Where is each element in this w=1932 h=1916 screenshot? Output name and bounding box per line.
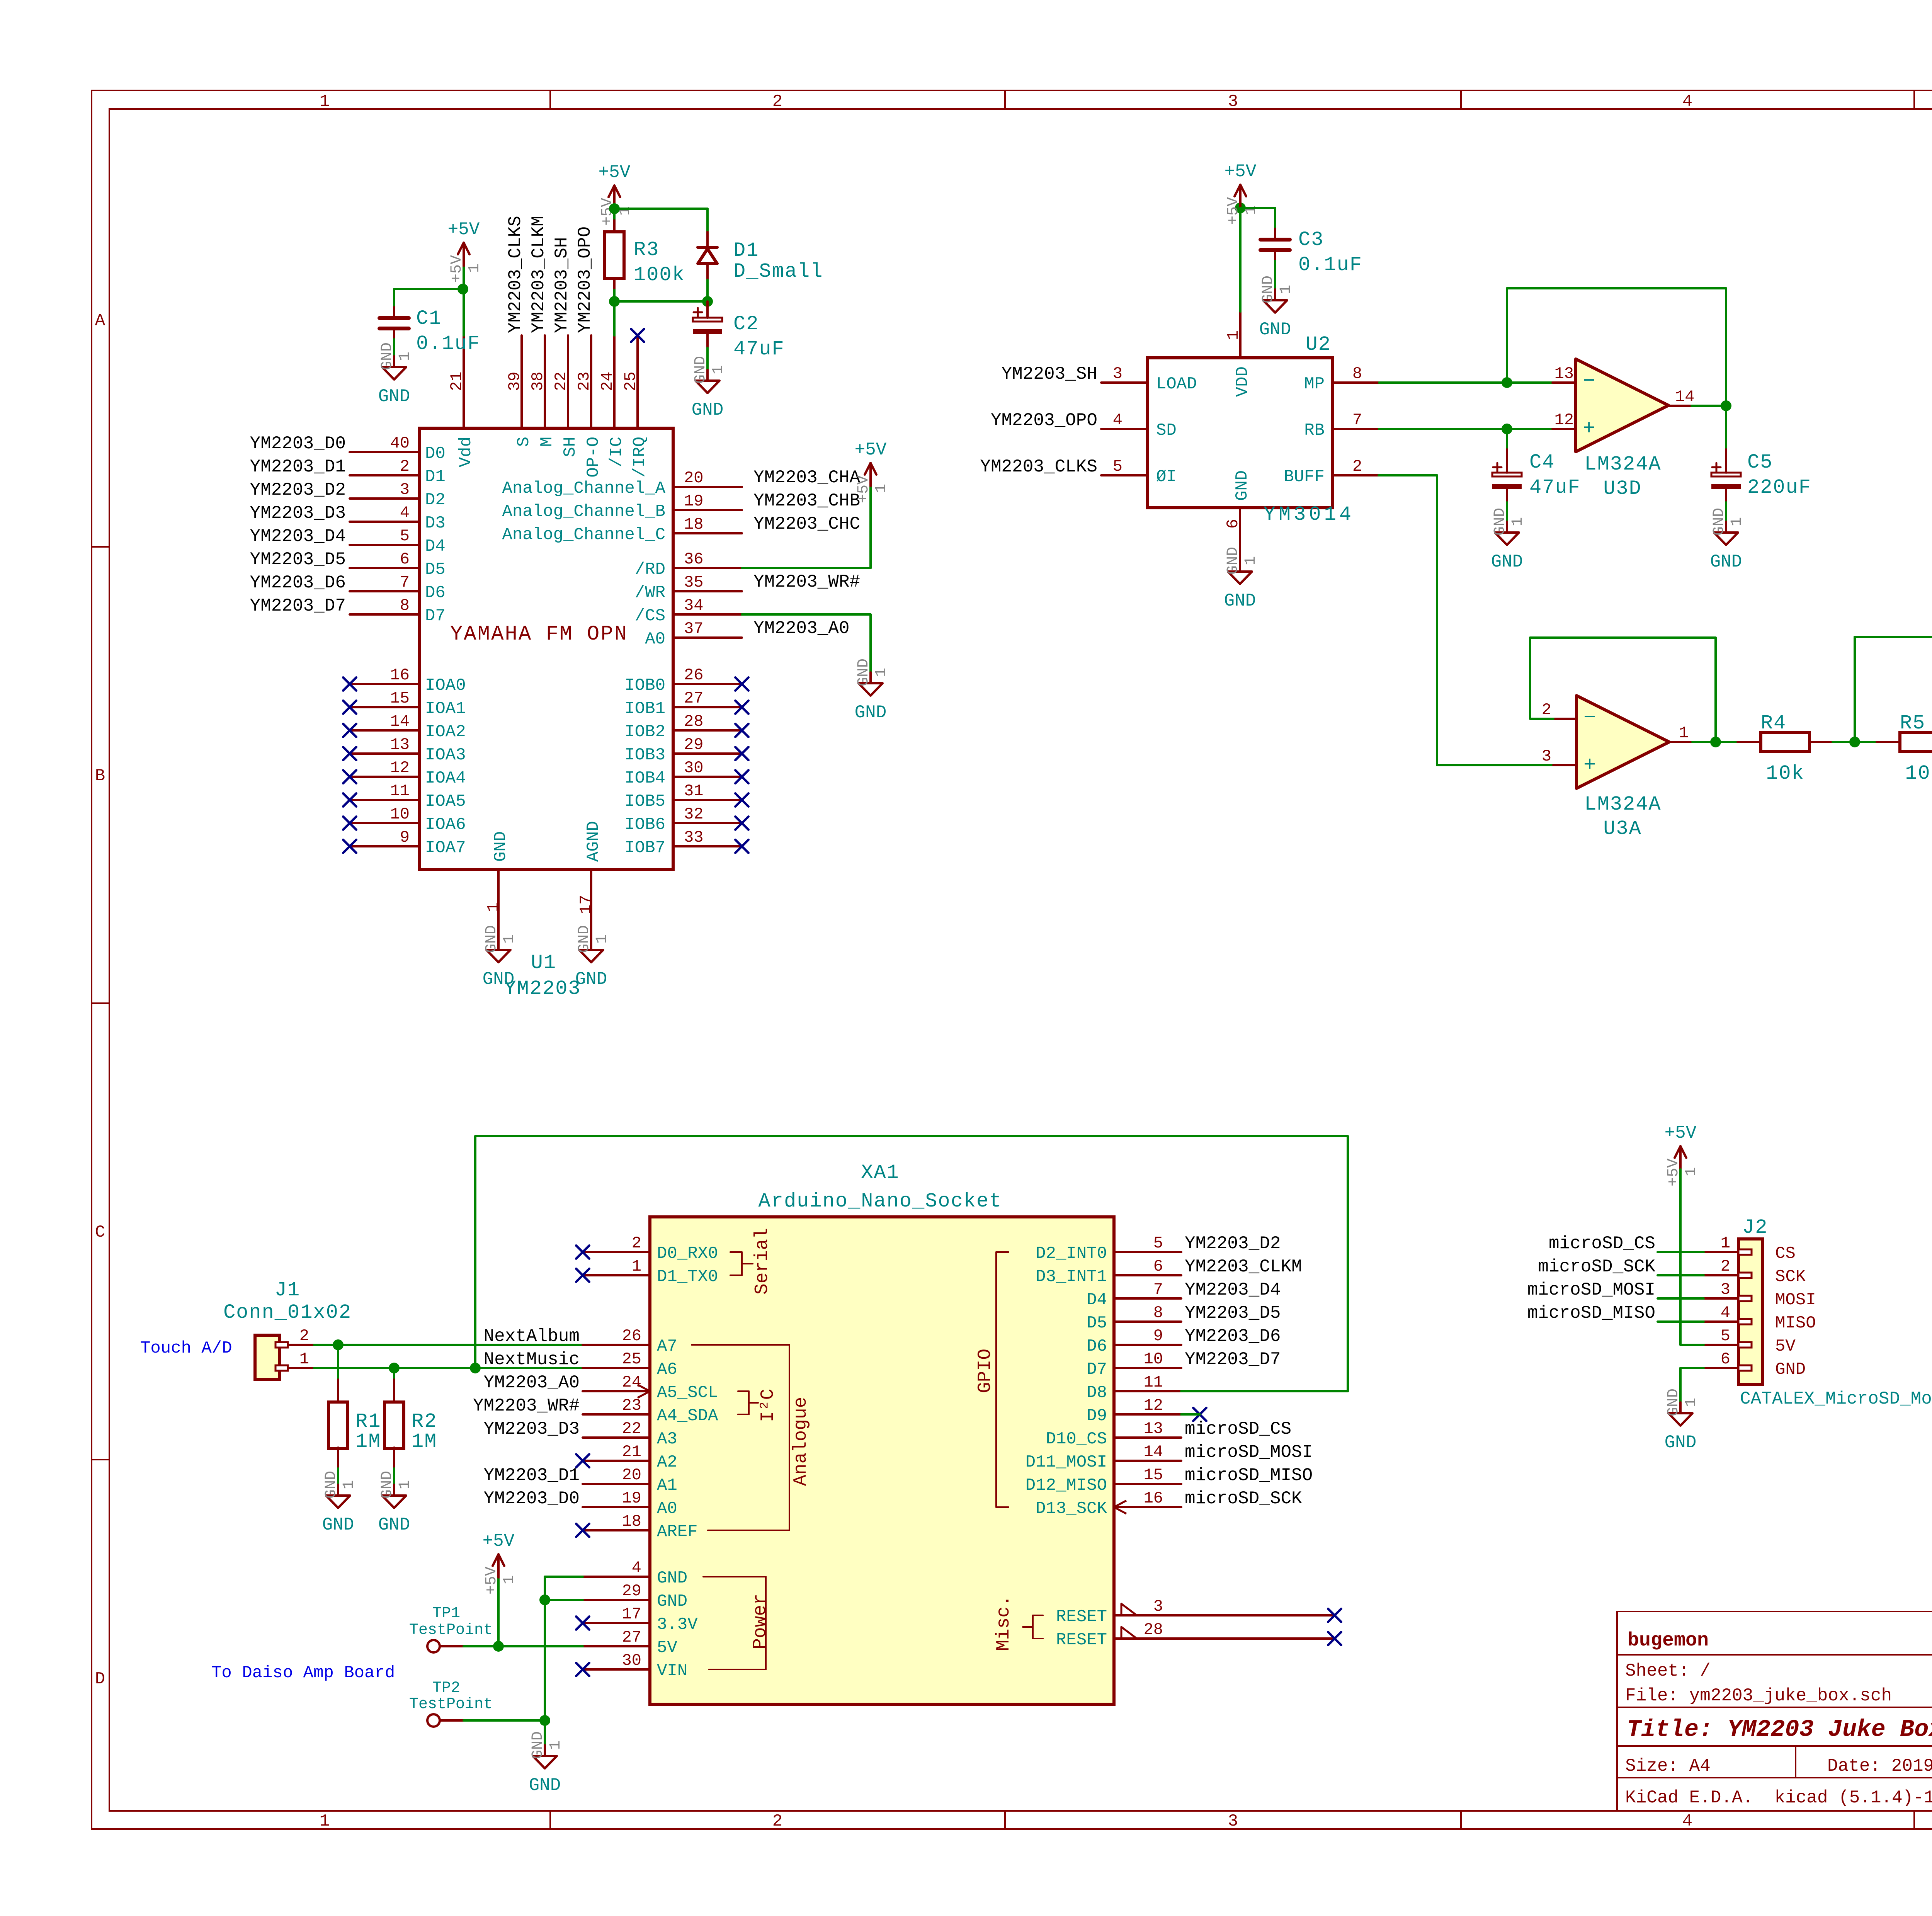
svg-text:4: 4: [1721, 1303, 1730, 1322]
net label microSD_SCK at J2: [1538, 1257, 1655, 1277]
net label YM2203_D1: [250, 457, 346, 477]
svg-text:A4_SDA: A4_SDA: [657, 1406, 718, 1426]
svg-text:RB: RB: [1304, 421, 1325, 440]
U1 pin 36 /RD: [635, 550, 742, 579]
svg-text:YM2203_CLKS: YM2203_CLKS: [505, 216, 526, 333]
svg-text:22: 22: [552, 372, 570, 391]
svg-text:2: 2: [1542, 701, 1551, 719]
net label microSD_MOSI at J2: [1527, 1280, 1655, 1300]
wire C3 bottom: [1274, 250, 1276, 289]
wire microSD_MOSI to J2: [1658, 1297, 1704, 1300]
net label microSD_MISO at J2: [1527, 1303, 1655, 1323]
XA1 pin 26 A7: [583, 1327, 677, 1356]
svg-text:D8: D8: [1087, 1383, 1107, 1402]
svg-text:D0: D0: [425, 444, 446, 463]
svg-text:3: 3: [400, 480, 410, 499]
svg-text:16: 16: [1144, 1489, 1163, 1508]
svg-text:D11_MOSI: D11_MOSI: [1026, 1453, 1107, 1472]
wire J2 GND pin: [1680, 1368, 1704, 1402]
svg-text:LM324A: LM324A: [1584, 793, 1661, 816]
svg-text:4: 4: [632, 1559, 641, 1577]
junction at 5V tap: [493, 1641, 504, 1652]
svg-text:Analog_Channel_C: Analog_Channel_C: [502, 525, 665, 545]
svg-text:19: 19: [684, 492, 703, 510]
svg-text:D13_SCK: D13_SCK: [1036, 1499, 1107, 1518]
svg-text:28: 28: [684, 712, 703, 731]
net label YM2203_D2 at XA1: [1185, 1234, 1281, 1254]
svg-text:YM2203_D0: YM2203_D0: [484, 1489, 580, 1509]
svg-text:IOB4: IOB4: [624, 769, 665, 788]
svg-text:27: 27: [622, 1628, 641, 1647]
net label microSD_SCK at XA1: [1185, 1489, 1302, 1509]
U2 pin 1 VDD: [1224, 311, 1252, 397]
R1 value 1M: [355, 1430, 381, 1453]
svg-text:3: 3: [1228, 92, 1238, 111]
svg-text:AGND: AGND: [584, 821, 603, 862]
svg-text:A: A: [95, 311, 105, 330]
svg-text:+5V: +5V: [855, 440, 887, 460]
net label YM2203_D4: [250, 526, 346, 546]
svg-text:A7: A7: [657, 1337, 677, 1356]
svg-text:IOB3: IOB3: [624, 745, 665, 765]
wire +5V junction to C1: [394, 288, 463, 290]
svg-text:CS: CS: [1775, 1244, 1796, 1263]
XA1 Power bracket: [703, 1577, 771, 1669]
wire RB junction down to C4: [1506, 429, 1508, 473]
svg-text:/IC: /IC: [607, 437, 626, 467]
svg-text:VIN: VIN: [657, 1661, 687, 1681]
svg-text:1: 1: [1509, 517, 1527, 526]
XA1 pin 16 D13_SCK: [1036, 1489, 1181, 1518]
svg-text:Serial: Serial: [752, 1228, 773, 1295]
U1 pin 6 D5: [350, 550, 446, 579]
U1 pin 17 AGND: [577, 821, 603, 939]
svg-text:GND: GND: [657, 1592, 687, 1611]
svg-text:A2: A2: [657, 1453, 677, 1472]
U1 pin 7 D6: [350, 573, 446, 602]
svg-text:28: 28: [1144, 1620, 1163, 1639]
svg-text:27: 27: [684, 689, 703, 708]
svg-text:100k: 100k: [634, 264, 685, 286]
R5 value 10k: [1905, 762, 1932, 785]
svg-text:4: 4: [400, 504, 410, 522]
svg-text:1: 1: [320, 92, 330, 111]
U1 pin 39 S: [505, 335, 534, 447]
svg-text:1: 1: [710, 365, 727, 374]
XA1 pin 23 A4_SDA: [583, 1396, 718, 1426]
wire R4 to junction: [1833, 741, 1855, 743]
svg-text:23: 23: [622, 1396, 641, 1415]
svg-text:File: ym2203_juke_box.sch: File: ym2203_juke_box.sch: [1625, 1686, 1892, 1706]
svg-text:Sheet: /: Sheet: /: [1625, 1661, 1711, 1681]
svg-text:IOB2: IOB2: [624, 722, 665, 742]
svg-text:GND: GND: [657, 1569, 687, 1588]
svg-text:TestPoint: TestPoint: [409, 1622, 493, 1639]
svg-text:2: 2: [299, 1327, 309, 1345]
svg-text:3: 3: [1721, 1280, 1730, 1299]
svg-text:microSD_MOSI: microSD_MOSI: [1185, 1442, 1313, 1462]
svg-text:microSD_CS: microSD_CS: [1549, 1234, 1655, 1254]
svg-text:U3A: U3A: [1603, 817, 1642, 840]
svg-text:3: 3: [1153, 1597, 1163, 1616]
svg-text:R4: R4: [1761, 712, 1786, 735]
svg-text:/WR: /WR: [635, 583, 665, 602]
svg-text:YM2203_D5: YM2203_D5: [1185, 1303, 1281, 1323]
U1 pin 18 Analog_Channel_C: [502, 515, 742, 545]
svg-text:RESET: RESET: [1056, 1630, 1107, 1650]
wire junction to /IC pin: [613, 301, 616, 335]
svg-text:AREF: AREF: [657, 1522, 698, 1542]
wire U3A output to R4: [1716, 741, 1738, 743]
net label YM2203_D1 at XA1: [484, 1465, 580, 1485]
svg-text:J1: J1: [275, 1279, 300, 1302]
U1 pin 12 IOA4 with no-connect: [343, 759, 466, 788]
C1 value 0.1uF: [416, 332, 480, 355]
svg-text:7: 7: [1153, 1280, 1163, 1299]
svg-text:YM2203_D1: YM2203_D1: [250, 457, 346, 477]
svg-text:1: 1: [873, 484, 890, 493]
wire D1 bottom to junction: [706, 280, 709, 301]
svg-text:GND: GND: [1492, 508, 1509, 536]
svg-text:15: 15: [390, 689, 410, 708]
svg-text:IOB0: IOB0: [624, 676, 665, 695]
wire stub D9: [1181, 1413, 1200, 1416]
U1 pin 26 IOB0 with no-connect: [624, 666, 748, 695]
U3D value LM324A: [1584, 453, 1661, 476]
wire junction up to C8 row: [1854, 637, 1856, 742]
XA1 pin 5 D2_INT0: [1036, 1234, 1181, 1263]
wire C5 bottom: [1725, 489, 1727, 522]
net label NextMusic at XA1: [484, 1349, 580, 1370]
U3A pin 3 stub: [1542, 747, 1577, 766]
svg-text:YM2203_D2: YM2203_D2: [1185, 1234, 1281, 1254]
svg-text:MISO: MISO: [1775, 1314, 1816, 1333]
net label YM2203_A0 at U1: [753, 618, 849, 638]
svg-text:6: 6: [1224, 519, 1242, 529]
svg-text:D1: D1: [425, 467, 446, 487]
svg-text:12: 12: [390, 759, 410, 777]
net label YM2203_WR# at XA1: [473, 1396, 580, 1416]
svg-text:20: 20: [622, 1466, 641, 1484]
svg-text:21: 21: [622, 1443, 641, 1461]
R4 reference: [1761, 712, 1786, 735]
svg-text:1: 1: [340, 1480, 358, 1489]
net label YM2203_D6: [250, 573, 346, 593]
svg-text:2: 2: [772, 1812, 782, 1831]
svg-text:Arduino_Nano_Socket: Arduino_Nano_Socket: [759, 1190, 1002, 1213]
svg-text:IOA4: IOA4: [425, 769, 466, 788]
svg-text:microSD_MOSI: microSD_MOSI: [1527, 1280, 1655, 1300]
R2 value 1M: [412, 1430, 437, 1453]
XA1 pin 1 D1_TX0: [576, 1257, 718, 1286]
svg-text:18: 18: [622, 1512, 641, 1531]
XA1 pin 10 D7: [1087, 1350, 1181, 1379]
ground symbol at U1 pin 17: [575, 925, 611, 989]
svg-text:26: 26: [684, 666, 703, 684]
svg-text:20: 20: [684, 469, 703, 487]
svg-text:U2: U2: [1306, 333, 1331, 356]
svg-text:GND: GND: [1710, 552, 1742, 572]
svg-text:microSD_CS: microSD_CS: [1185, 1419, 1291, 1439]
svg-text:1: 1: [501, 934, 518, 944]
svg-text:GND: GND: [1491, 552, 1523, 572]
wire U3D output down to C5: [1725, 406, 1727, 473]
wire C4 bottom: [1506, 489, 1508, 522]
TP2 value TestPoint: [409, 1696, 493, 1713]
svg-text:1: 1: [1277, 285, 1295, 294]
junction at U2 +5V: [1235, 202, 1246, 213]
resistor R5: [1877, 732, 1932, 752]
svg-text:GND: GND: [483, 969, 515, 989]
svg-text:C3: C3: [1298, 228, 1324, 251]
wire BUFF to U3A pin 3: [1437, 764, 1553, 766]
junction on RB wire: [1502, 424, 1512, 434]
svg-text:D4: D4: [425, 537, 446, 556]
svg-text:Conn_01x02: Conn_01x02: [223, 1301, 352, 1324]
svg-text:GND: GND: [1665, 1433, 1697, 1453]
J2 pin 6 GND: [1704, 1350, 1806, 1379]
wire NextMusic riser: [474, 1136, 476, 1368]
svg-text:8: 8: [1153, 1303, 1163, 1322]
svg-text:8: 8: [1352, 364, 1362, 383]
XA1 pin 30 VIN: [576, 1651, 687, 1681]
svg-text:SCK: SCK: [1775, 1267, 1806, 1286]
wire U2 VDD to +5V: [1239, 208, 1242, 311]
svg-text:36: 36: [684, 550, 703, 568]
net label YM2203_D3: [250, 503, 346, 523]
resistor R2: [384, 1402, 404, 1448]
svg-text:14: 14: [390, 712, 410, 731]
svg-text:NextAlbum: NextAlbum: [484, 1326, 580, 1346]
svg-text:3.3V: 3.3V: [657, 1615, 698, 1634]
svg-text:4: 4: [1682, 92, 1692, 111]
svg-text:22: 22: [622, 1419, 641, 1438]
svg-text:MP: MP: [1304, 374, 1325, 394]
svg-text:NextMusic: NextMusic: [484, 1349, 580, 1370]
svg-text:IOA3: IOA3: [425, 745, 466, 765]
svg-text:24: 24: [598, 372, 617, 391]
svg-text:35: 35: [684, 573, 703, 592]
svg-text:YM2203_SH: YM2203_SH: [552, 237, 572, 333]
svg-text:D2_INT0: D2_INT0: [1036, 1244, 1107, 1263]
svg-text:GND: GND: [855, 703, 887, 723]
svg-text:microSD_MISO: microSD_MISO: [1527, 1303, 1655, 1323]
svg-text:GND: GND: [1665, 1389, 1682, 1416]
svg-text:+5V: +5V: [599, 162, 631, 182]
XA1 pin 28 RESET: [1114, 1620, 1341, 1645]
svg-text:YM2203: YM2203: [504, 977, 581, 1000]
XA1 pin 7 D4: [1087, 1280, 1181, 1310]
svg-text:Vdd: Vdd: [456, 437, 476, 467]
svg-text:YM2203_CLKM: YM2203_CLKM: [529, 216, 549, 333]
XA1 GPIO bracket: [975, 1252, 1009, 1507]
svg-text:C2: C2: [733, 313, 759, 335]
R3 reference: [634, 238, 659, 261]
svg-text:D_Small: D_Small: [733, 260, 823, 283]
svg-text:YM2203_D4: YM2203_D4: [250, 526, 346, 546]
svg-text:YM2203_CLKS: YM2203_CLKS: [980, 457, 1097, 477]
U1 pin 15 IOA1 with no-connect: [343, 689, 466, 718]
wire R5 from junction: [1855, 741, 1877, 743]
svg-text:I²C: I²C: [758, 1389, 779, 1422]
U3D reference: [1603, 477, 1642, 500]
net label YM2203_D5: [250, 550, 346, 570]
XA1 pin 3 RESET: [1114, 1597, 1341, 1622]
U1 pin 3 D2: [350, 480, 446, 510]
svg-text:bugemon: bugemon: [1628, 1630, 1709, 1652]
svg-text:23: 23: [575, 372, 594, 391]
J2 reference: [1742, 1216, 1768, 1239]
svg-text:Touch A/D: Touch A/D: [140, 1339, 232, 1358]
ground symbol below C3: [1259, 276, 1295, 340]
svg-text:R1: R1: [355, 1410, 381, 1433]
svg-text:YM2203_CHB: YM2203_CHB: [753, 491, 860, 511]
svg-text:1: 1: [1728, 517, 1746, 526]
svg-text:YM2203_A0: YM2203_A0: [753, 618, 849, 638]
svg-text:12: 12: [1554, 411, 1574, 429]
ground symbol below XA1: [529, 1731, 565, 1795]
svg-text:34: 34: [684, 596, 703, 615]
XA1 pin 11 D8: [1087, 1373, 1181, 1402]
XA1 pin 17 3.3V: [576, 1605, 698, 1634]
XA1 pin 25 A6: [583, 1350, 677, 1379]
svg-text:15: 15: [1144, 1466, 1163, 1484]
svg-text:IOB5: IOB5: [624, 792, 665, 811]
op-amp U3D: [1576, 359, 1668, 452]
svg-text:D5: D5: [425, 560, 446, 579]
svg-text:D: D: [95, 1669, 105, 1689]
net label YM2203_D3 at XA1: [484, 1419, 580, 1439]
C2 value 47uF: [733, 338, 785, 361]
svg-text:13: 13: [1554, 364, 1574, 383]
svg-text:R5: R5: [1900, 712, 1925, 735]
resistor R4: [1738, 732, 1833, 752]
svg-text:14: 14: [1675, 388, 1694, 406]
U1 reference U1: [531, 951, 556, 974]
svg-text:4: 4: [1113, 411, 1122, 429]
svg-text:17: 17: [622, 1605, 641, 1623]
U1 pin 11 IOA5 with no-connect: [343, 782, 466, 811]
svg-text:1: 1: [1224, 330, 1243, 340]
svg-text:IOA5: IOA5: [425, 792, 466, 811]
svg-text:220uF: 220uF: [1747, 476, 1811, 499]
junction at C2 top: [702, 296, 713, 307]
svg-text:19: 19: [622, 1489, 641, 1508]
svg-text:D10_CS: D10_CS: [1046, 1429, 1107, 1449]
svg-text:25: 25: [622, 1350, 641, 1368]
svg-text:A3: A3: [657, 1429, 677, 1449]
net label microSD_CS at XA1: [1185, 1419, 1291, 1439]
svg-text:S: S: [514, 437, 534, 447]
svg-text:1: 1: [594, 934, 611, 944]
svg-text:17: 17: [577, 895, 595, 914]
wire U2 RB to U3D pin 12: [1379, 428, 1553, 430]
net label YM2203_D7: [250, 596, 346, 616]
svg-text:26: 26: [622, 1327, 641, 1345]
svg-text:C4: C4: [1529, 451, 1555, 474]
svg-text:7: 7: [400, 573, 410, 592]
U2 pin 2 BUFF: [1284, 457, 1379, 487]
U2 pin 8 MP: [1304, 364, 1379, 394]
ground symbol below C1: [378, 342, 414, 407]
svg-text:29: 29: [684, 735, 703, 754]
U3A pin 1 output: [1669, 724, 1716, 742]
wire microSD_CS to J2: [1658, 1251, 1704, 1253]
XA1 Analogue bracket: [692, 1345, 811, 1530]
wire U2 BUFF to corner: [1379, 474, 1437, 476]
svg-text:YM2203_CHC: YM2203_CHC: [753, 514, 860, 534]
wire C2 bottom: [706, 334, 709, 370]
J2 pin 4 MISO: [1704, 1303, 1816, 1333]
svg-text:YM2203_D4: YM2203_D4: [1185, 1280, 1281, 1300]
IC U2 body YM3014: [1148, 358, 1333, 508]
junction at U3A output: [1710, 737, 1721, 747]
ground symbol at U2 pin 6: [1224, 547, 1260, 611]
svg-text:14: 14: [1144, 1443, 1163, 1461]
svg-text:40: 40: [390, 434, 410, 453]
J2 pin 3 MOSI: [1704, 1280, 1816, 1310]
svg-text:+5V: +5V: [448, 220, 480, 240]
svg-text:47uF: 47uF: [1529, 476, 1581, 499]
svg-text:12: 12: [1144, 1396, 1163, 1415]
U1 pin 33 IOB7 with no-connect: [624, 828, 748, 858]
svg-text:5V: 5V: [1775, 1337, 1796, 1356]
svg-text:+5V: +5V: [483, 1567, 500, 1594]
U3A value LM324A: [1584, 793, 1661, 816]
svg-text:OP-O: OP-O: [584, 437, 603, 478]
junction at R1 top: [333, 1339, 344, 1350]
svg-text:1: 1: [396, 1480, 414, 1489]
XA1 pin 12 D9: [1087, 1396, 1181, 1426]
svg-text:3: 3: [1113, 364, 1122, 383]
U1 pin 13 IOA3 with no-connect: [343, 735, 466, 765]
J1 value Conn_01x02: [223, 1301, 352, 1324]
svg-text:D3_INT1: D3_INT1: [1036, 1267, 1107, 1286]
svg-text:IOA0: IOA0: [425, 676, 466, 695]
wire /CS to GND: [742, 614, 871, 672]
svg-text:Size: A4: Size: A4: [1625, 1756, 1711, 1776]
U1 pin 9 IOA7 with no-connect: [343, 828, 466, 858]
svg-text:GND: GND: [378, 386, 410, 407]
svg-text:2: 2: [1352, 457, 1362, 476]
U1 pin 40 D0: [350, 434, 446, 463]
svg-text:1: 1: [299, 1350, 309, 1368]
wire GND bus down: [544, 1600, 546, 1720]
svg-text:3: 3: [1228, 1812, 1238, 1831]
J1 pin 2: [276, 1327, 314, 1348]
net label YM2203_CHB at U1: [753, 491, 860, 511]
svg-text:A0: A0: [645, 630, 665, 649]
XA1 value Arduino_Nano_Socket: [759, 1190, 1002, 1213]
junction on MP wire: [1502, 377, 1512, 388]
svg-text:A0: A0: [657, 1499, 677, 1518]
svg-text:Date: 2019-10-13: Date: 2019-10-13: [1827, 1756, 1932, 1776]
test point TP1: [427, 1640, 498, 1652]
no-connect at XA1 D9: [1193, 1408, 1206, 1421]
capacitor C2 47uF polarized: [693, 301, 722, 334]
XA1 pin 14 D11_MOSI: [1026, 1443, 1181, 1472]
XA1 pin 29 GND: [583, 1582, 687, 1611]
svg-text:5V: 5V: [657, 1638, 677, 1657]
U2 reference U2: [1306, 333, 1331, 356]
svg-text:YM2203_D0: YM2203_D0: [250, 434, 346, 454]
ground symbol below C4: [1491, 508, 1527, 572]
capacitor C3: [1260, 240, 1290, 250]
svg-text:GND: GND: [576, 925, 593, 953]
wire R2 top: [393, 1368, 395, 1403]
J2 pin 2 SCK: [1704, 1257, 1806, 1286]
svg-text:29: 29: [622, 1582, 641, 1600]
